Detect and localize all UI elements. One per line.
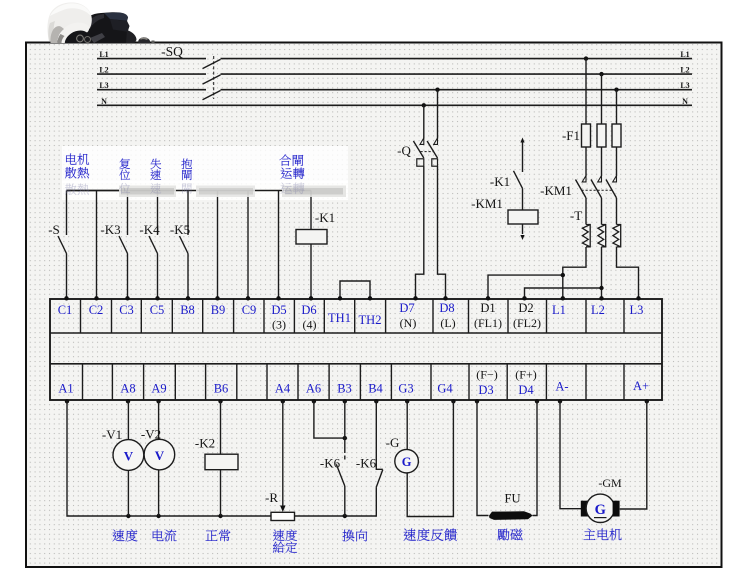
svg-text:A+: A+ xyxy=(633,379,649,393)
breaker -Q right pole blade xyxy=(427,141,437,158)
fuse -F1 element 2 xyxy=(597,124,606,147)
label current (Chinese) xyxy=(153,530,177,542)
wire bus to terminal C2 xyxy=(96,191,98,298)
svg-text:D1: D1 xyxy=(480,301,495,315)
contactor -KM1 main contact 3 blade xyxy=(606,180,617,198)
wire -KM1 coil down xyxy=(522,224,524,234)
wire N phase rail xyxy=(97,104,692,106)
wire L2 phase rail right segment xyxy=(221,73,693,75)
wire bus right of -R xyxy=(295,515,377,517)
label excitation (Chinese) xyxy=(497,529,522,541)
wire A9 to voltmeter -V2 xyxy=(158,401,160,439)
label normal (Chinese) xyxy=(206,530,231,542)
continuation arrow up (to control) xyxy=(520,138,524,143)
wire rail to fuse 2 xyxy=(601,74,603,124)
svg-text:V: V xyxy=(124,449,134,464)
connector jog left pole xyxy=(417,159,424,166)
wire -T winding1 to terminal L1 xyxy=(563,247,586,297)
svg-text:-Q: -Q xyxy=(397,143,411,158)
contactor -KM1 main contact 1 fixed contact xyxy=(582,176,586,182)
relay contact -K1 blade xyxy=(514,171,523,189)
label brake (Chinese, vertical) xyxy=(181,159,192,169)
relay contact -K6b blade xyxy=(376,470,383,488)
wire G3 to tacho -G xyxy=(406,401,408,450)
wire A- to motor brush xyxy=(560,401,582,509)
wire A1 to common bus xyxy=(67,401,271,516)
label motor-cooling (Chinese) xyxy=(66,154,89,165)
breaker -Q left pole fixed contact xyxy=(420,138,424,144)
relay contact -K6a blade xyxy=(336,464,345,486)
node A6/B3 junction xyxy=(343,436,347,440)
svg-text:-G: -G xyxy=(386,435,400,450)
svg-text:A-: A- xyxy=(555,380,568,394)
svg-text:D8: D8 xyxy=(439,301,454,315)
svg-text:L3: L3 xyxy=(680,81,689,90)
svg-text:C2: C2 xyxy=(89,303,104,317)
white highlight band (scan artifact) xyxy=(62,146,348,183)
wire -K1 coil to terminal D6 xyxy=(310,244,312,297)
fuse -F1 element 1 xyxy=(582,124,591,147)
contactor -KM1 main contact 3 fixed contact xyxy=(613,176,617,182)
node L3 tap for -Q xyxy=(435,88,439,92)
disconnect switch -SQ pole L2 blade xyxy=(203,75,221,84)
svg-text:D6: D6 xyxy=(301,303,316,317)
node bus/V1 xyxy=(126,514,130,518)
node bus/V2 xyxy=(156,514,160,518)
transformer -T winding 1 xyxy=(586,225,590,247)
continuation arrow down xyxy=(520,235,524,240)
svg-text:L1: L1 xyxy=(99,50,108,59)
svg-text:G3: G3 xyxy=(398,382,413,396)
svg-text:B8: B8 xyxy=(180,303,195,317)
svg-text:(N): (N) xyxy=(400,316,417,330)
motor -GM right brush xyxy=(613,501,620,517)
lower row terminal connection dots xyxy=(65,399,69,403)
wire FU to D4 xyxy=(533,401,538,516)
wire -Q left pole down xyxy=(416,166,424,297)
svg-text:D4: D4 xyxy=(518,383,534,397)
wire -K2 to bus xyxy=(220,470,222,516)
field fuse FU (filled bar) xyxy=(489,511,533,520)
svg-text:-K1: -K1 xyxy=(315,210,335,225)
svg-text:-T: -T xyxy=(570,208,582,223)
node rail tap fuse 3 xyxy=(614,88,618,92)
fuse -F1 element 3 xyxy=(612,124,621,147)
svg-text:G4: G4 xyxy=(437,382,453,396)
breaker -Q right pole fixed contact xyxy=(434,138,438,144)
svg-text:(F+): (F+) xyxy=(515,368,536,382)
svg-text:(FL2): (FL2) xyxy=(513,316,541,330)
svg-text:C9: C9 xyxy=(242,303,257,317)
svg-text:A9: A9 xyxy=(151,382,166,396)
transformer -T winding 3 xyxy=(617,225,621,247)
svg-text:C3: C3 xyxy=(119,303,134,317)
svg-text:TH1: TH1 xyxy=(328,311,351,325)
wire B3 to contact -K6a xyxy=(344,401,346,453)
grey mush texture over band (scan artifact) xyxy=(119,186,176,198)
wire bus to relay coil -K1 xyxy=(310,191,312,230)
svg-text:(FL1): (FL1) xyxy=(474,316,502,330)
svg-text:-KM1: -KM1 xyxy=(540,183,572,198)
contactor -KM1 main contact 1 blade xyxy=(576,180,587,198)
wire fuse 1 to -KM1 contact xyxy=(585,147,587,176)
terminal strip row divider upper xyxy=(50,332,662,334)
ghost text smudges (scan artifact) xyxy=(65,184,89,195)
wire -T winding3 to terminal L3 xyxy=(617,247,639,297)
wire -V1 to bus xyxy=(127,470,129,516)
wire bus to terminal B9 xyxy=(217,191,219,298)
svg-text:A4: A4 xyxy=(275,382,291,396)
svg-text:-K1: -K1 xyxy=(490,174,510,189)
svg-text:L1: L1 xyxy=(680,50,689,59)
svg-text:C1: C1 xyxy=(58,303,73,317)
svg-text:D7: D7 xyxy=(399,301,414,315)
relay contact -K5 with wire to terminal B8 xyxy=(187,191,189,236)
contactor coil -KM1 xyxy=(508,210,538,224)
transformer -T winding 2 xyxy=(602,225,606,247)
terminal strip upper row cell dividers xyxy=(80,299,82,333)
wire arrow to -K1 contact xyxy=(522,141,524,172)
wire L1 phase rail right segment xyxy=(221,58,693,60)
svg-text:(F−): (F−) xyxy=(476,368,497,382)
wire L2 phase rail left segment xyxy=(97,73,206,75)
svg-text:-K6: -K6 xyxy=(356,456,377,471)
terminal strip lower row cell dividers xyxy=(82,364,84,400)
switch -S with wire to terminal C1 xyxy=(66,191,68,236)
relay coil -K2 xyxy=(205,454,238,470)
contactor -KM1 main contact 2 blade xyxy=(591,180,602,198)
node junction D2/L2 xyxy=(599,286,603,290)
wire A8 to voltmeter -V1 xyxy=(127,401,129,440)
wire bus to terminal D5 xyxy=(278,191,280,298)
label reset (Chinese, vertical) xyxy=(120,158,130,169)
svg-text:-V1: -V1 xyxy=(102,427,122,442)
wire N rail to -Q left pole xyxy=(423,105,425,138)
wire terminal D1 to L1 branch xyxy=(488,275,563,297)
svg-text:(3): (3) xyxy=(272,318,286,332)
wire fuse 2 to -KM1 contact xyxy=(601,147,603,176)
svg-text:B3: B3 xyxy=(337,382,352,396)
svg-text:-K6: -K6 xyxy=(320,456,341,471)
node junction D1/L1 xyxy=(561,273,565,277)
meter -V1 (speed) xyxy=(113,440,144,471)
relay contact -K3 with wire to terminal C3 xyxy=(127,191,129,236)
breaker -Q left pole blade xyxy=(413,141,423,158)
svg-text:B9: B9 xyxy=(211,303,226,317)
contactor -KM1 linkage (dashed) xyxy=(582,189,614,191)
svg-text:-K2: -K2 xyxy=(195,436,215,451)
svg-text:B4: B4 xyxy=(368,382,383,396)
svg-text:L2: L2 xyxy=(99,66,108,75)
wire -Q right pole down xyxy=(438,166,446,297)
node rail tap fuse 1 xyxy=(584,56,588,60)
wire bus to terminal C9 xyxy=(247,191,249,298)
svg-text:-R: -R xyxy=(265,490,278,505)
svg-text:G: G xyxy=(402,455,412,469)
svg-text:(4): (4) xyxy=(303,318,317,332)
wire L3 phase rail left segment xyxy=(97,89,206,91)
wire -R wiper from A4 xyxy=(282,401,284,507)
wire -KM1 contact 3 to -T coil xyxy=(616,198,618,225)
breaker -Q linkage (dashed) xyxy=(421,151,434,153)
label reversing (Chinese) xyxy=(342,530,367,542)
svg-text:V: V xyxy=(155,448,165,463)
wire rail to fuse 3 xyxy=(616,90,618,124)
wire rail to fuse 1 xyxy=(585,59,587,124)
wire -T winding2 to terminal L2 xyxy=(601,247,603,297)
svg-text:A1: A1 xyxy=(58,382,73,396)
node bus/B3 xyxy=(343,514,347,518)
svg-text:-F1: -F1 xyxy=(562,128,580,143)
wire control bus left segment (overdraw) xyxy=(67,190,120,192)
label main motor (Chinese) xyxy=(584,529,622,541)
disconnect switch -SQ pole L1 blade xyxy=(203,59,221,68)
wire -V2 to bus xyxy=(158,470,160,516)
svg-text:L1: L1 xyxy=(552,303,566,317)
svg-text:G: G xyxy=(595,502,606,518)
wire B4 to contact -K6b xyxy=(376,401,383,469)
node rail tap fuse 2 xyxy=(599,72,603,76)
svg-text:-KM1: -KM1 xyxy=(471,196,503,211)
svg-text:TH2: TH2 xyxy=(359,313,382,327)
svg-text:-V2: -V2 xyxy=(141,427,161,442)
motor -GM body xyxy=(586,494,614,522)
svg-text:-SQ: -SQ xyxy=(161,44,183,59)
svg-text:-K3: -K3 xyxy=(100,222,120,237)
node N tap for -Q xyxy=(422,103,426,107)
photo overlay: white helmet object xyxy=(47,2,91,41)
wire control bus xyxy=(67,190,312,192)
svg-text:N: N xyxy=(101,97,107,106)
tacho generator -G xyxy=(395,449,419,473)
relay coil -K1 xyxy=(296,230,327,245)
wire -K6a to bus xyxy=(344,486,346,516)
terminal strip outline xyxy=(50,299,662,400)
wire D3 down xyxy=(477,401,489,516)
wire A+ to motor brush xyxy=(620,401,647,509)
wire -KM1 contact 2 to -T coil xyxy=(601,198,603,225)
wire -K1 to -KM1 coil xyxy=(522,188,524,210)
svg-text:A8: A8 xyxy=(120,382,135,396)
svg-text:A6: A6 xyxy=(306,382,321,396)
photo overlay: black camera object xyxy=(57,12,130,43)
svg-text:L2: L2 xyxy=(680,66,689,75)
wire fuse 3 to -KM1 contact xyxy=(616,147,618,176)
wiper arrow xyxy=(280,506,286,513)
svg-text:B6: B6 xyxy=(214,382,229,396)
svg-text:-K5: -K5 xyxy=(170,222,190,237)
wire -KM1 contact 1 to -T coil xyxy=(585,198,587,225)
potentiometer -R body xyxy=(271,512,295,520)
relay contact -K4 with wire to terminal C5 xyxy=(157,191,159,236)
wire terminal D2 to L2 branch xyxy=(525,288,602,297)
label close-run (Chinese) xyxy=(279,154,303,165)
label speed (Chinese) xyxy=(113,529,138,541)
svg-text:-S: -S xyxy=(48,222,60,237)
svg-text:(L): (L) xyxy=(440,316,455,330)
svg-text:-K4: -K4 xyxy=(139,222,160,237)
contactor -KM1 main contact 2 fixed contact xyxy=(598,176,602,182)
label overspeed (Chinese, vertical) xyxy=(150,159,161,169)
connector jog right pole xyxy=(432,159,438,166)
label speed feedback (Chinese) xyxy=(404,528,457,541)
disconnect switch -SQ linkage (dashed) xyxy=(213,56,215,99)
motor -GM left brush xyxy=(581,501,589,517)
node bus/K2 xyxy=(218,514,222,518)
svg-text:-GM: -GM xyxy=(598,476,622,490)
upper row terminal connection dots xyxy=(64,296,68,300)
meter -V2 (current) xyxy=(144,439,175,470)
wire -K6b to bus end xyxy=(375,487,377,517)
wire jumper TH1-TH2 xyxy=(340,281,370,297)
wire B6 to relay coil -K2 xyxy=(220,401,222,454)
wire L3 phase rail right segment xyxy=(221,89,693,91)
svg-text:D2: D2 xyxy=(518,301,533,315)
svg-text:L2: L2 xyxy=(591,303,605,317)
svg-text:D5: D5 xyxy=(271,303,286,317)
wire A6 jumper to B3 xyxy=(314,401,345,438)
disconnect switch -SQ pole L3 blade xyxy=(203,91,221,100)
wire L1 phase rail left segment xyxy=(97,58,206,60)
wire L3 rail to -Q right pole xyxy=(437,90,439,139)
svg-text:N: N xyxy=(682,97,688,106)
terminal strip row divider lower xyxy=(50,363,662,365)
label speed-setting (Chinese) xyxy=(273,529,297,541)
svg-text:C5: C5 xyxy=(150,303,165,317)
wire -G loop to G4 xyxy=(407,401,453,517)
svg-text:L3: L3 xyxy=(99,81,108,90)
svg-text:L3: L3 xyxy=(630,303,644,317)
svg-text:FU: FU xyxy=(505,492,521,506)
svg-text:D3: D3 xyxy=(478,383,493,397)
